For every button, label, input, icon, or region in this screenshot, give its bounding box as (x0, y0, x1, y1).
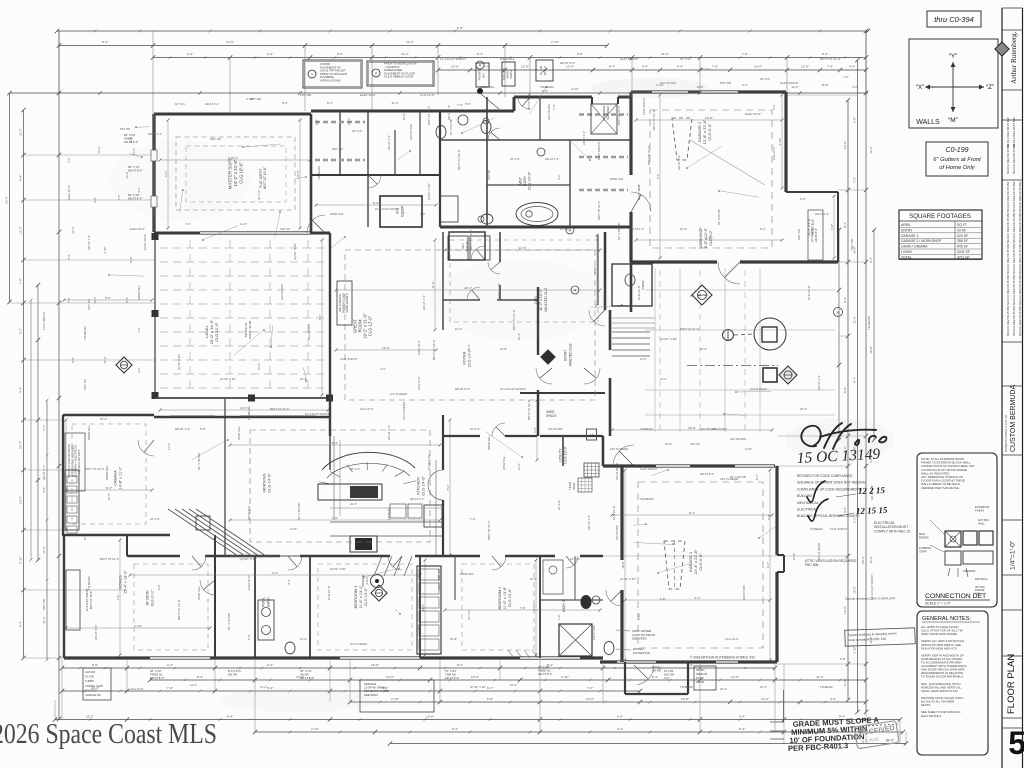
svg-text:BOTT AT 10'-0": BOTT AT 10'-0" (652, 109, 656, 130)
svg-text:thru C0-394: thru C0-394 (934, 15, 974, 24)
svg-text:BOTT AT 10'-0": BOTT AT 10'-0" (432, 339, 436, 360)
svg-text:10'-0": 10'-0" (107, 493, 111, 500)
svg-text:CLG 10'-0": CLG 10'-0" (327, 585, 331, 600)
svg-text:22'-4": 22'-4" (720, 687, 727, 691)
svg-text:GENERAL NOTES:: GENERAL NOTES: (922, 616, 971, 622)
svg-text:CONNECTION DET: CONNECTION DET (925, 593, 986, 600)
svg-text:SHT SU: SHT SU (280, 227, 290, 231)
svg-text:BOTT AT 10'-0": BOTT AT 10'-0" (597, 201, 601, 220)
svg-text:AT 2'-0": AT 2'-0" (150, 517, 160, 521)
svg-text:4'-0": 4'-0" (664, 676, 669, 680)
svg-text:7'-6": 7'-6" (67, 297, 71, 303)
svg-text:545 SF: 545 SF (957, 245, 968, 249)
svg-text:22'-4": 22'-4" (700, 347, 707, 351)
svg-text:4'-4": 4'-4" (272, 571, 278, 575)
svg-text:BOTT AT 12'-0": BOTT AT 12'-0" (270, 407, 289, 411)
wall gallery south y436 left part (443, 435, 480, 437)
top extension lines (152, 31, 154, 114)
svg-text:SHT SU: SHT SU (210, 137, 221, 141)
wall bonus top jog (126, 535, 128, 556)
closet shelving dashed master wic (315, 121, 365, 124)
wall garage2 left (629, 92, 632, 175)
svg-text:8'-4": 8'-4" (417, 624, 421, 630)
dashed ceiling bed3 (318, 564, 412, 650)
morning window band bottom (230, 555, 300, 557)
svg-text:ISSUANCE OF PERMIT DOES NOT RE: ISSUANCE OF PERMIT DOES NOT RELIEVE (797, 481, 866, 485)
svg-text:LIN 74 REQD: LIN 74 REQD (390, 392, 407, 396)
svg-text:16 X 8: 16 X 8 (696, 676, 704, 680)
top dimension line overall 88-6 (57, 30, 868, 32)
wall bed3 east x420 (419, 556, 421, 658)
wall cabana bottom (62, 534, 170, 536)
symbol dashes porch (734, 334, 754, 335)
svg-text:6'-8": 6'-8" (577, 52, 583, 56)
svg-text:52" X 50 5/8": 52" X 50 5/8" (197, 453, 201, 470)
ceiling dashed great room (345, 250, 595, 400)
svg-text:12'-6": 12'-6" (521, 65, 529, 69)
door foyer arch (428, 470, 443, 500)
svg-text:N0-03-0 REV 08-15 MW: N0-03-0 REV 08-15 MW (1012, 181, 1016, 212)
svg-text:7'-6": 7'-6" (587, 686, 593, 690)
svg-text:MWL: MWL (919, 532, 926, 536)
titleblock logo diamond (995, 42, 1009, 56)
svg-text:N0-03-0 REV 08-15 MW: N0-03-0 REV 08-15 MW (1018, 305, 1022, 336)
svg-text:2'-10": 2'-10" (391, 697, 399, 701)
svg-text:11'-2": 11'-2" (240, 222, 247, 226)
svg-text:12'-4 FLAT SOFFIT: 12'-4 FLAT SOFFIT (375, 207, 400, 211)
svg-text:BOTT AT 10'-0": BOTT AT 10'-0" (820, 57, 841, 61)
svg-text:8'-4": 8'-4" (373, 201, 379, 205)
leader lines scatter (275, 212, 280, 237)
wall band y227 between bath band and great room (440, 226, 631, 229)
svg-text:52" X 50 5/8": 52" X 50 5/8" (730, 475, 746, 479)
svg-text:2'-10": 2'-10" (103, 246, 107, 253)
wall den east x605 upper (604, 232, 607, 310)
svg-text:5'-5": 5'-5" (105, 296, 111, 300)
svg-text:DRAWINGS FOR: DRAWINGS FOR (342, 293, 346, 313)
titleblock c0-199 gutters box (926, 142, 988, 176)
svg-text:8'-4": 8'-4" (477, 52, 483, 56)
svg-text:INTERIOR: INTERIOR (963, 569, 976, 573)
general notes box (917, 611, 988, 755)
svg-text:PKT DR: PKT DR (120, 127, 130, 131)
svg-text:16'-8": 16'-8" (853, 246, 857, 253)
wall utility band top y436 (540, 435, 603, 437)
svg-text:10'-0": 10'-0" (257, 363, 261, 370)
lanai beam dashed lines (160, 247, 328, 249)
svg-text:2'-10": 2'-10" (705, 236, 713, 240)
top dimension line tier4 (438, 69, 866, 71)
svg-text:14'-8" x 11'-2": 14'-8" x 11'-2" (119, 466, 123, 490)
below-plan text box a (83, 668, 111, 700)
svg-text:AT 2'-0": AT 2'-0" (352, 129, 362, 133)
svg-text:3'-0": 3'-0" (137, 367, 141, 373)
svg-text:12'-6": 12'-6" (426, 715, 434, 719)
svg-text:TR-BEAM: TR-BEAM (83, 326, 87, 340)
svg-text:10'-0": 10'-0" (382, 346, 390, 350)
svg-text:4'-4": 4'-4" (617, 727, 623, 731)
svg-text:WDW SILL: WDW SILL (487, 435, 491, 450)
svg-text:4'-4": 4'-4" (397, 564, 401, 570)
svg-text:2026 Space Coast MLS: 2026 Space Coast MLS (0, 719, 217, 750)
svg-text:12'-6": 12'-6" (869, 146, 873, 153)
svg-text:9'-4": 9'-4" (843, 222, 847, 228)
partition bath y140 (440, 139, 631, 141)
svg-text:L7: L7 (590, 434, 594, 438)
svg-text:HD AT 8'-0": HD AT 8'-0" (538, 672, 552, 676)
svg-text:BUILDING OFFICIAL BREVARD COUN: BUILDING OFFICIAL BREVARD COUNTY (797, 514, 860, 518)
svg-text:10'-0": 10'-0" (853, 586, 857, 593)
svg-text:WDW SILL: WDW SILL (105, 465, 109, 480)
svg-text:5'-5": 5'-5" (637, 184, 641, 190)
bottom left dim hooks (783, 690, 785, 722)
titleblock square footages table (899, 210, 982, 259)
svg-text:12'-6": 12'-6" (566, 65, 574, 69)
symbol circle A markers (566, 226, 574, 234)
svg-text:12'-6": 12'-6" (93, 296, 97, 303)
svg-text:CLG 10'-0": CLG 10'-0" (508, 588, 512, 607)
svg-text:10'-0": 10'-0" (680, 227, 687, 231)
svg-text:16'-8": 16'-8" (386, 675, 394, 679)
svg-text:10'-0": 10'-0" (510, 683, 517, 687)
svg-text:FLAT SOFFIT: FLAT SOFFIT (259, 168, 263, 188)
svg-text:JR SUITE: JR SUITE (146, 590, 150, 606)
svg-text:3'-0": 3'-0" (843, 507, 847, 513)
svg-text:BOTT AT 12'-0": BOTT AT 12'-0" (617, 106, 621, 125)
partition wic x570 (569, 140, 571, 227)
svg-text:6'-8": 6'-8" (660, 597, 666, 601)
lanai left colonnade (154, 233, 156, 398)
svg-text:6'-8": 6'-8" (315, 119, 319, 125)
svg-text:11'-2": 11'-2" (86, 715, 94, 719)
svg-text:7'-6": 7'-6" (116, 595, 120, 601)
svg-text:52" X 50 5/8": 52" X 50 5/8" (297, 503, 301, 520)
svg-text:PRIVATE: PRIVATE (478, 69, 482, 80)
svg-text:BOTT AT 10'-0": BOTT AT 10'-0" (680, 327, 699, 331)
svg-text:1/4"=1'-0": 1/4"=1'-0" (1010, 540, 1017, 570)
ceiling dashed garage1 (638, 482, 763, 648)
wall pool bath x310 (309, 556, 311, 658)
svg-text:HD AT 8'-0": HD AT 8'-0" (677, 155, 681, 170)
svg-text:SEE INTERIOR: SEE INTERIOR (338, 294, 342, 312)
svg-text:SQUARE FOOTAGES: SQUARE FOOTAGES (909, 213, 971, 220)
kitchen cabinet detail lines (333, 436, 335, 520)
wall garage2 right (784, 92, 787, 192)
svg-text:HD AT 1'-4": HD AT 1'-4" (545, 157, 559, 161)
grade must slope stamp text (786, 715, 880, 753)
svg-text:BOTT AT 10'-8": BOTT AT 10'-8" (263, 167, 267, 189)
svg-text:BOTT AT 10'-0": BOTT AT 10'-0" (89, 591, 93, 610)
small box upper right (536, 60, 553, 81)
svg-text:TILE & PEBBLE FLOOR: TILE & PEBBLE FLOOR (384, 75, 413, 79)
label see interior box (337, 281, 352, 325)
porch right boxed note (808, 210, 823, 260)
symbol diamond hall (371, 585, 387, 601)
svg-text:WORKSHOP: WORKSHOP (699, 227, 703, 249)
svg-text:6'-8": 6'-8" (487, 697, 493, 701)
garage2 attic dashed (672, 118, 692, 160)
svg-text:8'-4": 8'-4" (327, 101, 333, 105)
svg-text:16'-8": 16'-8" (681, 697, 689, 701)
svg-text:12'-6": 12'-6" (517, 463, 521, 470)
bottom dimension line B1 (62, 667, 775, 669)
svg-text:10'-0": 10'-0" (402, 113, 406, 120)
svg-text:CLG 10'-0": CLG 10'-0" (417, 376, 421, 390)
svg-text:8'-4": 8'-4" (739, 727, 745, 731)
wall garage1 bottom with doors (600, 660, 617, 663)
svg-text:SEE SPEC: SEE SPEC (632, 637, 648, 641)
svg-text:HD AT 1'-4": HD AT 1'-4" (817, 375, 821, 390)
wall bath x440 (439, 111, 441, 227)
svg-text:BATH: BATH (266, 597, 270, 607)
svg-text:FILTRATION: FILTRATION (633, 651, 650, 655)
svg-text:SVC DR: SVC DR (664, 672, 674, 676)
svg-text:4'-4": 4'-4" (67, 254, 71, 260)
svg-text:2'-10": 2'-10" (551, 40, 559, 44)
svg-text:N0-03-0 REV 08-15 MW: N0-03-0 REV 08-15 MW (1006, 117, 1010, 148)
svg-text:WDW SILL: WDW SILL (330, 212, 344, 216)
left dimension line L2 (23, 110, 25, 658)
svg-text:N0-03-0 REV 08-15 MW: N0-03-0 REV 08-15 MW (1006, 212, 1010, 243)
svg-text:HD AT 1'-4": HD AT 1'-4" (205, 102, 219, 106)
svg-text:REVISED FOR CODE COMPLIANCE: REVISED FOR CODE COMPLIANCE (797, 474, 853, 478)
svg-text:AT 2'-0": AT 2'-0" (257, 190, 261, 200)
svg-text:ENTRY: ENTRY (901, 228, 913, 232)
svg-text:4'-4": 4'-4" (467, 344, 471, 350)
left extra dim line x31 (30, 300, 32, 560)
svg-text:FLOOR PLAN: FLOOR PLAN (1006, 654, 1017, 714)
cabana rough-in note box rotated (65, 433, 85, 491)
svg-text:BOTT AT 10'-0": BOTT AT 10'-0" (647, 146, 651, 165)
closet tower bed3-bed2 (417, 566, 441, 654)
svg-text:2x6 STUDS: 2x6 STUDS (547, 104, 551, 120)
right dimension line R2 (857, 60, 859, 712)
stairs foyer small (612, 331, 650, 333)
kitchen range dark (355, 538, 372, 550)
svg-text:7'-6": 7'-6" (470, 517, 476, 521)
svg-text:CLG 10'-0": CLG 10'-0" (807, 285, 811, 300)
svg-text:16'-8": 16'-8" (821, 83, 828, 87)
handwritten dates and checks (807, 481, 828, 521)
svg-text:FLAT SOFFIT: FLAT SOFFIT (340, 357, 358, 361)
svg-text:BUILDING: BUILDING (797, 494, 813, 498)
dashed ceiling bed2 (462, 564, 534, 650)
partition bath x487 (486, 97, 488, 227)
svg-text:10'-0": 10'-0" (621, 561, 625, 568)
svg-text:8'-4": 8'-4" (853, 377, 857, 383)
svg-text:SEATS.: SEATS. (921, 703, 931, 707)
svg-text:2x6 STUDS: 2x6 STUDS (307, 324, 311, 340)
av equip room (380, 196, 422, 227)
svg-text:PWDR: PWDR (641, 280, 645, 290)
svg-text:WDW SILL: WDW SILL (610, 177, 624, 181)
svg-text:COMPLY WITH NEC 20: COMPLY WITH NEC 20 (874, 529, 911, 533)
service bump below garage (624, 662, 626, 694)
svg-text:GAS DR: GAS DR (85, 670, 95, 674)
svg-text:5: 5 (1008, 725, 1024, 761)
svg-text:2x6 STUDS: 2x6 STUDS (280, 284, 284, 300)
small box tankless heater (502, 62, 515, 86)
svg-text:LIN 74 REQD: LIN 74 REQD (527, 93, 531, 110)
utility washer grid (584, 463, 599, 477)
svg-text:7'-6": 7'-6" (457, 103, 463, 107)
svg-text:11'-2": 11'-2" (401, 52, 409, 56)
svg-text:BEDROOM 2: BEDROOM 2 (498, 587, 502, 610)
svg-text:HD AT 1'-4": HD AT 1'-4" (410, 497, 424, 501)
wall garage1 right x777 (775, 466, 778, 555)
svg-text:LIN 74 REQD: LIN 74 REQD (610, 447, 629, 451)
pool bath toilet dark (581, 595, 592, 609)
pool bath wc (285, 642, 295, 654)
interior dim lines vertical (167, 120, 169, 228)
svg-text:CLG 10'-0": CLG 10'-0" (360, 407, 374, 411)
svg-text:N0-03-0 REV 08-15 MW: N0-03-0 REV 08-15 MW (1006, 274, 1010, 305)
bottom dimension line B4 (350, 701, 866, 703)
svg-text:CLG 10'-0": CLG 10'-0" (772, 146, 776, 160)
svg-text:TOTAL: TOTAL (901, 255, 912, 259)
svg-text:2'-10": 2'-10" (571, 87, 578, 91)
svg-text:EQUIP: EQUIP (400, 205, 404, 217)
porch extra dim lines (654, 268, 656, 432)
svg-text:7'-6": 7'-6" (318, 315, 322, 321)
left dimension line L1 (9, 93, 11, 302)
kitchen island (318, 484, 382, 500)
svg-text:10'-0": 10'-0" (869, 346, 873, 353)
svg-text:WDW SILL: WDW SILL (460, 572, 474, 576)
kitchen fridge (424, 505, 442, 527)
door bonus (200, 580, 215, 595)
symbol circle small porch (723, 330, 734, 341)
interior dim lines horizontal (160, 159, 310, 161)
svg-text:28'-4": 28'-4" (861, 556, 865, 564)
svg-text:7'-6": 7'-6" (853, 177, 857, 183)
svg-text:CLG 10'-0": CLG 10'-0" (130, 687, 144, 691)
svg-text:22'-4": 22'-4" (100, 417, 107, 421)
svg-text:LIVING: LIVING (901, 250, 912, 254)
svg-text:KITCHEN: GAS INCLUDED: KITCHEN: GAS INCLUDED (70, 445, 74, 477)
svg-text:5'-5": 5'-5" (800, 197, 806, 201)
svg-text:10'-0": 10'-0" (754, 65, 762, 69)
door den (589, 310, 605, 326)
svg-text:WDW SILL: WDW SILL (197, 586, 201, 600)
svg-text:HD AT 8'-0": HD AT 8'-0" (94, 625, 98, 640)
svg-text:AT 2'-0": AT 2'-0" (350, 467, 360, 471)
svg-text:5'-5": 5'-5" (465, 102, 471, 106)
svg-text:OH DR: OH DR (652, 669, 661, 673)
svg-text:HD AT 1'-4": HD AT 1'-4" (815, 212, 829, 216)
svg-text:BONUS: BONUS (119, 575, 123, 589)
svg-text:48 MIN: 48 MIN (696, 668, 704, 672)
wall bed2 west x455 (454, 556, 456, 600)
svg-text:9'-4": 9'-4" (755, 474, 759, 480)
svg-text:WDW SILL: WDW SILL (237, 426, 241, 440)
svg-text:32 X 80: 32 X 80 (85, 675, 94, 679)
wall kitchen west x330 lower (329, 436, 331, 470)
svg-text:AWAY FROM HDW FRAME.: AWAY FROM HDW FRAME. (921, 632, 958, 636)
svg-text:FINISH: FINISH (975, 509, 984, 513)
utility small box L7 (587, 429, 597, 440)
svg-text:11'-6" x 13'-2": 11'-6" x 13'-2" (359, 585, 363, 609)
svg-text:LIN 74 REQD: LIN 74 REQD (817, 543, 821, 560)
svg-text:22'-4": 22'-4" (300, 377, 307, 381)
svg-text:AT 2'-0": AT 2'-0" (470, 427, 480, 431)
svg-text:CLG 10'-0": CLG 10'-0" (150, 589, 154, 606)
bed2 closet lines (508, 650, 514, 658)
svg-text:12'-6": 12'-6" (421, 604, 425, 611)
svg-text:11'-2": 11'-2" (816, 675, 824, 679)
svg-text:PLUMBING + ELECTRICAL: PLUMBING + ELECTRICAL (74, 444, 78, 477)
wall morning north y417 (154, 416, 225, 418)
svg-text:88'-6": 88'-6" (886, 739, 895, 743)
svg-text:TR-BEAM: TR-BEAM (810, 527, 823, 531)
svg-text:8'-4": 8'-4" (487, 686, 493, 690)
svg-text:8'-4": 8'-4" (125, 297, 129, 303)
svg-text:16'-8": 16'-8" (869, 556, 873, 563)
powder room near entry (612, 264, 652, 306)
svg-text:HD AT 1'-4": HD AT 1'-4" (87, 235, 91, 250)
svg-text:2x6 STUDS: 2x6 STUDS (730, 437, 746, 441)
svg-text:10'-0": 10'-0" (586, 697, 594, 701)
svg-text:BATH: BATH (523, 176, 527, 186)
svg-text:4'-4": 4'-4" (187, 52, 193, 56)
svg-text:2'-10": 2'-10" (637, 613, 641, 620)
svg-text:4'-4": 4'-4" (167, 663, 173, 667)
svg-text:TR-BEAM: TR-BEAM (680, 685, 693, 689)
svg-text:12'-6": 12'-6" (731, 675, 739, 679)
wall garage1 left x622 (602, 436, 605, 466)
svg-text:WDW SILL: WDW SILL (502, 456, 506, 470)
small box private wc (476, 63, 489, 87)
svg-text:7'-6": 7'-6" (167, 686, 173, 690)
wall lower-left left edge (63, 535, 65, 658)
svg-text:SHT SU: SHT SU (83, 379, 87, 390)
svg-text:9'-4": 9'-4" (71, 357, 75, 363)
den closet (449, 232, 485, 260)
svg-text:MORE DETAILS: MORE DETAILS (345, 293, 349, 312)
egress note box (845, 628, 916, 646)
svg-text:11'-2": 11'-2" (431, 281, 435, 288)
closet shelving dashed his wic (579, 113, 628, 116)
svg-text:“Y”: “Y” (949, 53, 958, 60)
svg-text:10'-0": 10'-0" (240, 406, 248, 410)
svg-text:HEATER: HEATER (510, 69, 513, 79)
svg-text:FLAT SOFFIT: FLAT SOFFIT (597, 141, 601, 160)
svg-text:WDW SILL: WDW SILL (500, 57, 515, 61)
svg-text:(2) 52" X 69": (2) 52" X 69" (177, 354, 181, 370)
svg-text:8'-4": 8'-4" (822, 52, 828, 56)
kitchen counters (330, 521, 443, 523)
svg-text:8'-4": 8'-4" (609, 65, 615, 69)
svg-text:4'-4": 4'-4" (739, 715, 745, 719)
bottom dimension line B2 (150, 679, 866, 681)
svg-text:C0-199: C0-199 (946, 147, 969, 154)
svg-text:LANAI / CABANA: LANAI / CABANA (901, 245, 928, 249)
svg-text:TURBO: TURBO (85, 679, 94, 683)
ceiling dashed garage2 (650, 110, 772, 248)
svg-text:“X”: “X” (916, 84, 925, 91)
svg-text:HD AT 1'-4": HD AT 1'-4" (148, 132, 162, 136)
svg-text:W.C.: W.C. (481, 72, 485, 78)
svg-text:BOTT AT 10'-0": BOTT AT 10'-0" (527, 399, 531, 420)
svg-text:16'-8": 16'-8" (450, 637, 457, 641)
svg-text:11'-2": 11'-2" (103, 357, 107, 364)
svg-text:4'-4": 4'-4" (93, 197, 97, 203)
svg-text:11'-2": 11'-2" (42, 616, 46, 623)
foyer niche walls (499, 232, 501, 262)
wall kitchen-foyer x443 (442, 415, 444, 470)
svg-text:N0-03-0 REV 08-15 MW: N0-03-0 REV 08-15 MW (1012, 305, 1016, 336)
svg-text:N0-03-0 REV 08-15 MW: N0-03-0 REV 08-15 MW (1012, 117, 1016, 148)
